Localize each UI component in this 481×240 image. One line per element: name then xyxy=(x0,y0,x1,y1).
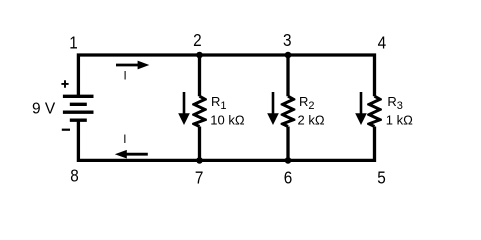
svg-text:10 kΩ: 10 kΩ xyxy=(210,113,245,128)
svg-text:R1: R1 xyxy=(211,94,227,112)
svg-text:2: 2 xyxy=(193,30,202,50)
svg-text:5: 5 xyxy=(377,167,386,187)
svg-text:6: 6 xyxy=(284,167,293,187)
svg-text:I: I xyxy=(124,71,127,83)
svg-text:2 kΩ: 2 kΩ xyxy=(298,113,325,128)
svg-text:1 kΩ: 1 kΩ xyxy=(386,113,413,128)
svg-text:3: 3 xyxy=(283,30,292,50)
svg-text:R2: R2 xyxy=(299,94,315,112)
svg-text:1: 1 xyxy=(69,33,78,53)
svg-text:7: 7 xyxy=(195,167,204,187)
svg-text:4: 4 xyxy=(378,33,387,53)
svg-text:R3: R3 xyxy=(387,94,403,112)
svg-text:9 V: 9 V xyxy=(32,101,56,118)
svg-text:8: 8 xyxy=(70,165,79,185)
svg-text:I: I xyxy=(123,134,126,146)
